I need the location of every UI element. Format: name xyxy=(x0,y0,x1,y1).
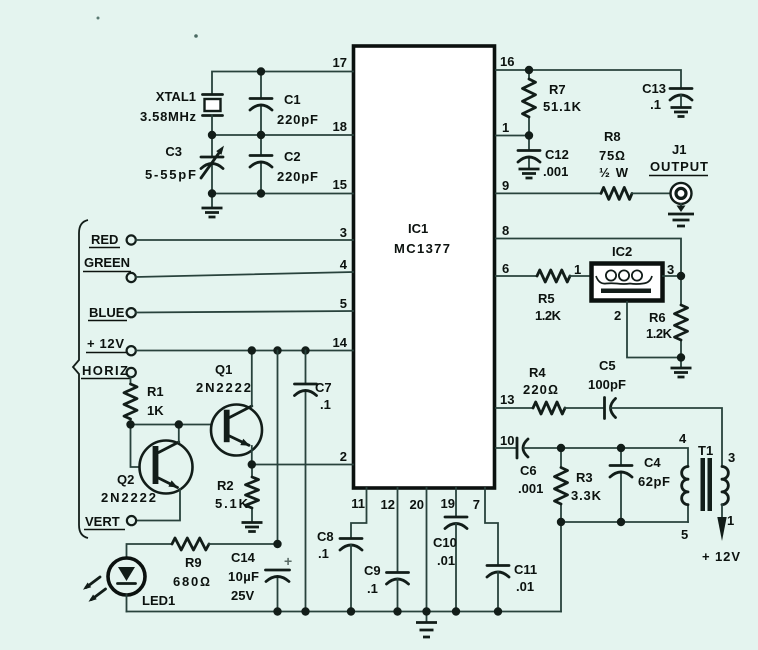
svg-text:1.2K: 1.2K xyxy=(535,308,562,323)
wire ground rail xyxy=(127,611,562,613)
wire Q2 collector xyxy=(178,425,180,443)
svg-text:C12: C12 xyxy=(545,147,569,162)
junction dots IC2 net xyxy=(677,272,685,362)
capacitor C6 xyxy=(517,438,543,496)
svg-text:3: 3 xyxy=(340,225,347,240)
junction dots tank circuit xyxy=(557,444,625,526)
wire pin 10 xyxy=(496,447,517,449)
wire pin 17 to crystal xyxy=(212,72,353,95)
svg-text:C11: C11 xyxy=(514,562,537,577)
wire pin 9 xyxy=(496,192,601,194)
svg-text:C13: C13 xyxy=(642,81,666,96)
svg-text:220pF: 220pF xyxy=(277,169,318,184)
svg-text:.1: .1 xyxy=(367,581,378,596)
wire pin 8 to IC2 pin 3 node xyxy=(496,239,681,273)
input terminal HORIZ xyxy=(81,363,136,379)
resistor R2 xyxy=(215,465,259,522)
ground at IC2 xyxy=(671,358,692,378)
ground at crystal xyxy=(202,194,223,218)
connector J1 xyxy=(649,142,708,212)
svg-text:R5: R5 xyxy=(538,291,555,306)
wire R5 to IC2 pin 1 xyxy=(570,275,591,277)
resistor R3 xyxy=(555,448,602,522)
svg-text:C1: C1 xyxy=(284,92,301,107)
capacitor C4 xyxy=(610,448,670,522)
svg-text:9: 9 xyxy=(502,178,509,193)
wire pin 6 xyxy=(496,275,537,277)
svg-text:C3: C3 xyxy=(165,144,182,159)
svg-text:1: 1 xyxy=(502,120,509,135)
svg-text:220pF: 220pF xyxy=(277,112,318,127)
svg-text:16: 16 xyxy=(500,54,514,69)
resistor R9 xyxy=(172,538,210,589)
capacitor C9 xyxy=(364,563,409,612)
svg-text:.01: .01 xyxy=(516,579,534,594)
capacitor C5 xyxy=(588,358,626,419)
IC1 pin labels right xyxy=(500,54,514,448)
svg-text:R8: R8 xyxy=(604,129,621,144)
wire supply rail to C14 branch xyxy=(277,351,279,545)
svg-text:½ W: ½ W xyxy=(599,165,629,180)
ground at J1 xyxy=(668,214,694,226)
resistor R8 xyxy=(599,129,632,199)
svg-text:C6: C6 xyxy=(520,463,537,478)
svg-text:OUTPUT: OUTPUT xyxy=(650,159,708,174)
wire BLUE to pin 5 xyxy=(136,311,353,313)
IC U2 delay line xyxy=(592,244,663,301)
capacitor C7 xyxy=(295,351,332,612)
svg-text:.01: .01 xyxy=(437,553,455,568)
capacitor C12 xyxy=(518,136,569,180)
capacitor C14 xyxy=(228,550,292,612)
svg-text:5: 5 xyxy=(681,527,688,542)
wire pin 12 xyxy=(397,488,399,573)
ground at C12 xyxy=(519,169,540,178)
svg-text:R1: R1 xyxy=(147,384,164,399)
brace input group xyxy=(73,220,88,538)
svg-text:62pF: 62pF xyxy=(638,474,670,489)
capacitor C2 xyxy=(250,135,318,194)
svg-text:R6: R6 xyxy=(649,310,666,325)
capacitor C8 xyxy=(317,529,362,612)
junction dot R9 node xyxy=(273,540,281,548)
resistor R7 xyxy=(523,70,582,136)
junction dots crystal net xyxy=(208,67,265,197)
wire pin 15 xyxy=(212,193,353,195)
svg-text:C4: C4 xyxy=(644,455,661,470)
resistor R4 xyxy=(523,365,565,414)
svg-text:11: 11 xyxy=(351,496,365,511)
wire pin 2 xyxy=(252,464,353,466)
svg-text:C14: C14 xyxy=(231,550,256,565)
wire pin 1 xyxy=(496,135,529,137)
svg-text:GREEN: GREEN xyxy=(84,255,130,270)
svg-text:6: 6 xyxy=(502,261,509,276)
wire R3 node to ground rail xyxy=(560,522,562,612)
wire pin 11 xyxy=(351,488,367,539)
svg-text:IC1: IC1 xyxy=(408,221,428,236)
wire bottom node row to T1 pin 5 xyxy=(561,521,688,523)
wire +12V rail to pin 14 xyxy=(136,350,353,352)
wire C6 to R3 node xyxy=(524,447,561,449)
svg-text:18: 18 xyxy=(333,119,347,134)
dust speck xyxy=(97,17,100,20)
capacitor C13 xyxy=(642,81,692,112)
wire IC2 pin 2 xyxy=(627,302,681,358)
wire R4 to C5 xyxy=(565,407,604,409)
svg-text:C8: C8 xyxy=(317,529,334,544)
wire R8 to J1 xyxy=(632,192,670,194)
svg-text:1: 1 xyxy=(574,262,581,277)
svg-text:C7: C7 xyxy=(315,380,332,395)
svg-text:R4: R4 xyxy=(529,365,546,380)
svg-text:.1: .1 xyxy=(650,97,661,112)
svg-text:3: 3 xyxy=(728,450,735,465)
svg-text:3.58MHz: 3.58MHz xyxy=(140,109,197,124)
svg-text:19: 19 xyxy=(441,496,455,511)
svg-text:R3: R3 xyxy=(576,470,593,485)
ground at R2 xyxy=(242,523,263,532)
svg-text:+ 12V: + 12V xyxy=(87,336,124,351)
wire pin 7 xyxy=(485,488,498,566)
svg-text:1: 1 xyxy=(727,513,734,528)
wire pin 13 xyxy=(496,407,533,409)
wire pin 18 xyxy=(212,134,353,136)
svg-text:2: 2 xyxy=(340,449,347,464)
wire LED to R9 xyxy=(127,544,173,558)
svg-text:13: 13 xyxy=(500,392,514,407)
svg-text:.001: .001 xyxy=(543,164,568,179)
svg-text:C2: C2 xyxy=(284,149,301,164)
transistor Q2 xyxy=(101,441,193,506)
svg-text:220Ω: 220Ω xyxy=(523,382,558,397)
svg-text:.1: .1 xyxy=(320,397,331,412)
svg-text:15: 15 xyxy=(333,177,347,192)
input terminal VERT xyxy=(84,514,136,530)
svg-text:VERT: VERT xyxy=(85,514,120,529)
svg-text:LED1: LED1 xyxy=(142,593,175,608)
junction dots ground rail xyxy=(273,607,502,615)
svg-text:680Ω: 680Ω xyxy=(173,574,210,589)
svg-text:75Ω: 75Ω xyxy=(599,148,625,163)
svg-text:51.1K: 51.1K xyxy=(543,99,582,114)
svg-text:1K: 1K xyxy=(147,403,164,418)
IC1 pin labels bottom xyxy=(351,496,480,512)
svg-text:C10: C10 xyxy=(433,535,457,550)
junction dots base net xyxy=(126,420,256,468)
svg-text:10µF: 10µF xyxy=(228,569,259,584)
svg-text:5: 5 xyxy=(340,296,347,311)
svg-text:4: 4 xyxy=(679,431,687,446)
svg-text:.1: .1 xyxy=(318,546,329,561)
junction dots R7 net xyxy=(525,66,533,140)
ground at C13 xyxy=(671,108,692,117)
svg-text:12: 12 xyxy=(381,497,395,512)
input terminal BLUE xyxy=(88,305,136,321)
resistor R5 xyxy=(535,270,570,323)
wire C5 to T1 pin 3 xyxy=(611,408,722,467)
wire RED to pin 3 xyxy=(136,239,353,241)
wire pin 19 xyxy=(455,488,457,517)
svg-text:Q2: Q2 xyxy=(117,472,134,487)
wire pin 20 xyxy=(426,488,428,612)
svg-text:R2: R2 xyxy=(217,478,234,493)
svg-text:17: 17 xyxy=(333,55,347,70)
input terminal RED xyxy=(89,232,136,248)
input terminal +12V xyxy=(86,336,136,355)
IC1 pin labels left xyxy=(333,55,348,464)
svg-text:4: 4 xyxy=(340,257,348,272)
svg-text:7: 7 xyxy=(473,497,480,512)
svg-text:Q1: Q1 xyxy=(215,362,232,377)
svg-text:J1: J1 xyxy=(672,142,686,157)
svg-text:3.3K: 3.3K xyxy=(571,488,602,503)
wire pin 16 to C13 xyxy=(496,70,681,89)
svg-text:.001: .001 xyxy=(518,481,543,496)
LED LED1 xyxy=(83,558,175,612)
svg-text:20: 20 xyxy=(410,497,424,512)
capacitor C10 xyxy=(433,517,467,612)
svg-text:C5: C5 xyxy=(599,358,616,373)
wire R9 to C14 branch xyxy=(209,543,278,545)
capacitor C1 xyxy=(250,72,318,136)
wire IC2 pin 3 xyxy=(663,275,681,277)
resistor R1 xyxy=(124,377,164,425)
svg-text:+: + xyxy=(284,553,292,569)
resistor R6 xyxy=(646,276,688,358)
svg-text:XTAL1: XTAL1 xyxy=(156,89,196,104)
svg-text:+ 12V: + 12V xyxy=(702,549,740,564)
wire R1 to Q1 base xyxy=(131,424,225,426)
transformer T1 xyxy=(679,431,735,542)
svg-text:IC2: IC2 xyxy=(612,244,632,259)
capacitor C3 variable xyxy=(145,135,224,194)
svg-text:8: 8 xyxy=(502,223,509,238)
svg-text:T1: T1 xyxy=(698,443,713,458)
svg-text:1.2K: 1.2K xyxy=(646,326,673,341)
IC U1 MC1377 xyxy=(354,46,495,488)
svg-text:R7: R7 xyxy=(549,82,566,97)
wire Q2 emitter to VERT xyxy=(137,489,180,521)
wire Q1 emitter to pin 2 node xyxy=(251,446,253,465)
junction dots supply rail xyxy=(248,346,310,354)
svg-text:BLUE: BLUE xyxy=(89,305,125,320)
input terminal GREEN xyxy=(83,255,136,282)
capacitor C11 xyxy=(487,562,537,612)
ground at pin 20 xyxy=(416,612,437,638)
wire GREEN to pin 4 xyxy=(136,272,353,277)
transistor Q1 xyxy=(196,362,262,456)
crystal XTAL1 xyxy=(140,89,223,135)
svg-text:14: 14 xyxy=(333,335,348,350)
svg-text:100pF: 100pF xyxy=(588,377,626,392)
svg-text:C9: C9 xyxy=(364,563,381,578)
svg-text:2: 2 xyxy=(614,308,621,323)
dust speck xyxy=(194,34,198,38)
wire R3 node to T1 pin 4 xyxy=(561,448,688,467)
svg-text:3: 3 xyxy=(667,262,674,277)
svg-text:HORIZ: HORIZ xyxy=(82,363,128,378)
wire R1 to Q2 base xyxy=(131,425,154,468)
wire Q1 collector to rail xyxy=(251,351,253,407)
svg-text:RED: RED xyxy=(91,232,118,247)
svg-text:R9: R9 xyxy=(185,555,202,570)
svg-text:5.1K: 5.1K xyxy=(215,496,249,511)
svg-text:10: 10 xyxy=(500,433,514,448)
svg-text:25V: 25V xyxy=(231,588,254,603)
